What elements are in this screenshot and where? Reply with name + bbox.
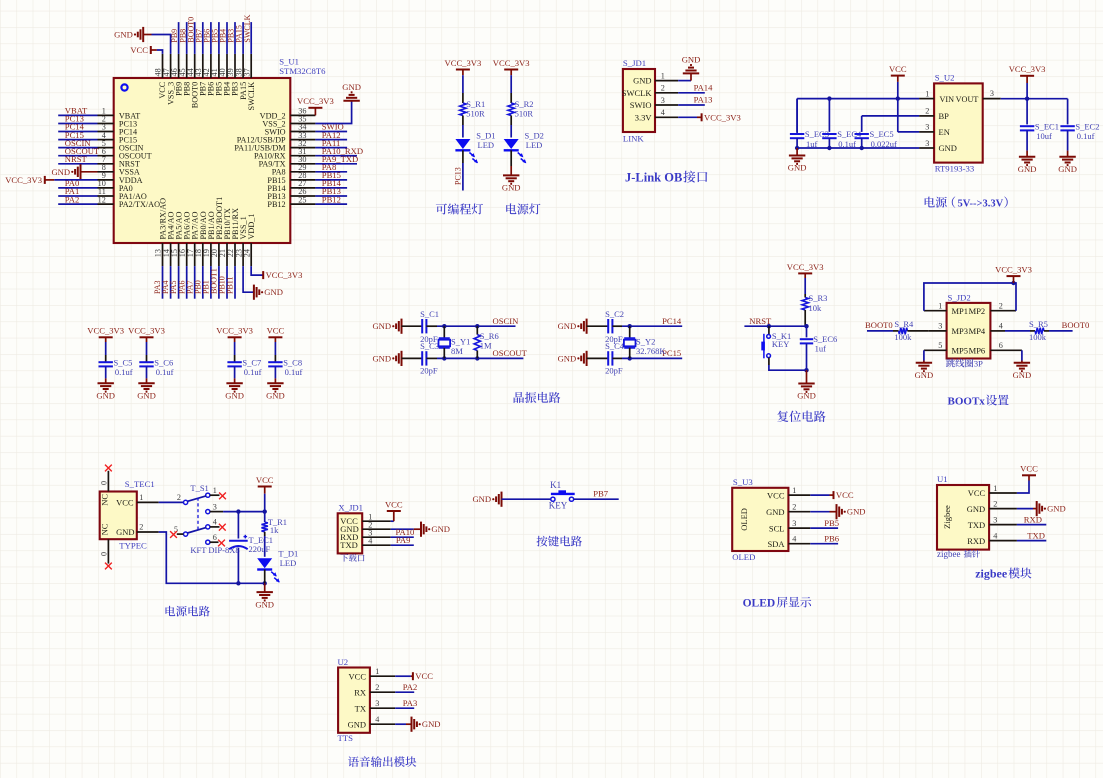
svg-text:TYPEC: TYPEC [119,541,147,551]
svg-text:6: 6 [213,533,217,542]
svg-text:MP2: MP2 [969,306,986,316]
wire left pin nets VBAT..PA2 [58,106,100,205]
svg-text:TXD: TXD [1027,530,1045,540]
svg-text:3: 3 [213,502,217,511]
svg-text:S_EC1: S_EC1 [1035,121,1059,131]
svg-text:VCC_3V3: VCC_3V3 [704,112,741,122]
svg-text:PA9: PA9 [396,535,411,545]
net label PC15 [662,348,681,358]
power flag VCC above S_U2 [889,64,907,99]
ground at zigbee pin 2 [1017,501,1066,516]
IC U1 S_U1 STM32C8T6 body [114,57,326,244]
wire S_U3 pin 3 net PB5 [810,518,839,528]
wire S_JD1 pin 3 net PA13 [678,95,712,105]
svg-text:S_R5: S_R5 [1029,319,1048,329]
svg-text:S_C7: S_C7 [242,357,261,367]
svg-text:OLED: OLED [732,552,755,562]
switch T_S1 mechanical link dashed [197,498,199,531]
resistor S_R1 510R [460,93,486,125]
svg-text:VCC_3V3: VCC_3V3 [493,58,530,68]
svg-text:PB12: PB12 [322,194,341,204]
svg-text:PB7: PB7 [593,489,609,499]
svg-text:4: 4 [792,535,796,544]
svg-text:5V-->3.3V: 5V-->3.3V [958,199,1004,210]
svg-text:GND: GND [96,390,115,400]
svg-text:MP4: MP4 [969,326,986,336]
ground flag left of S_C4 [558,351,587,366]
svg-text:3: 3 [938,322,942,331]
IC S_U1 bottom pins 13-24 stubs, numbers, names [154,197,257,266]
ground below S_C6 [137,378,156,400]
caption zigbee模块 [975,567,1031,581]
svg-text:2: 2 [375,683,379,692]
power flag VCC_3V3 at MCU pin 24 (VDD_1) [251,266,302,280]
svg-text:PB5: PB5 [824,518,839,528]
svg-text:RXD: RXD [967,536,985,546]
resistor S_R2 510R [508,93,534,125]
svg-text:TXD: TXD [968,520,985,530]
svg-text:T_D1: T_D1 [278,548,298,558]
svg-text:GND: GND [264,287,283,297]
svg-text:2: 2 [999,301,1003,310]
svg-text:STM32C8T6: STM32C8T6 [279,66,326,76]
no-connect pin 0 bottom of TYPEC [100,539,112,569]
svg-text:S_EC2: S_EC2 [1075,121,1099,131]
svg-text:SWCLK: SWCLK [622,88,653,98]
LED S_D1 [455,131,495,164]
svg-text:OLED: OLED [743,598,776,610]
svg-text:NRST: NRST [749,316,772,326]
svg-text:S_C5: S_C5 [114,357,133,367]
capacitor S_C5 0.1uf [99,355,133,378]
svg-text:S_R3: S_R3 [809,293,828,303]
svg-text:U1: U1 [937,474,948,484]
svg-text:VCC_3V3: VCC_3V3 [216,326,253,336]
svg-text:0: 0 [100,552,109,556]
caption 电源灯 [506,203,540,214]
crystal S_Y2 32.768K [624,326,666,358]
IC S_U1 left pins 1-12 stubs, numbers, names [98,107,161,209]
caption J-Link OB接口 [625,171,707,185]
svg-text:S_R2: S_R2 [515,99,534,109]
svg-text:S_U1: S_U1 [279,57,299,67]
power flag VCC_3V3 above S_C5 [87,326,124,355]
capacitor S_C7 0.1uf [227,355,261,378]
svg-text:MP3: MP3 [952,326,969,336]
power flag VCC_3V3 above S_C6 [128,326,165,355]
svg-text:VCC: VCC [130,45,148,55]
svg-text:BP: BP [939,111,950,121]
svg-text:X_JD1: X_JD1 [338,503,363,513]
svg-text:1M: 1M [480,341,492,351]
svg-text:GND: GND [967,504,985,514]
ground flag left of S_C1 [372,319,401,334]
IC U2 TTS voice module [338,657,396,743]
LED S_D2 [504,131,544,164]
wire BOOT loop pin1 to pin2 [924,281,1016,311]
wire right pin nets SWIO..PB12 [315,122,363,205]
svg-text:OSCIN: OSCIN [493,316,520,326]
svg-text:LINK: LINK [623,134,644,144]
svg-text:S_C2: S_C2 [605,309,624,319]
wire zigbee pin 3 net RXD [1017,514,1046,524]
IC U1 zigbee module [937,474,1017,549]
svg-text:GND: GND [558,353,577,363]
IC S_U2 RT9193-33 regulator [919,73,1001,174]
svg-text:BOOT0: BOOT0 [865,320,893,330]
svg-text:S_C4: S_C4 [605,341,625,351]
svg-text:GND: GND [1018,164,1037,174]
capacitor S_C8 0.1uf [268,355,302,378]
svg-text:TXD: TXD [340,540,357,550]
power flag VCC_3V3 at BOOT loop [995,265,1032,284]
svg-text:SWCLK: SWCLK [243,14,252,42]
caption 语音输出模块 [348,756,416,767]
svg-text:OSCOUT: OSCOUT [493,348,528,358]
svg-text:1: 1 [993,484,997,493]
svg-text:NRST: NRST [65,154,88,164]
wire S_R1 to S_D1 [462,125,464,138]
svg-text:S_C8: S_C8 [283,357,302,367]
wire crystal-2 top rail [622,324,682,328]
resistor T_R1 1k [262,512,288,536]
svg-text:VCC_3V3: VCC_3V3 [787,262,824,272]
svg-text:VCC_3V3: VCC_3V3 [995,265,1032,275]
ground flag at MCU pin 23 (VSS_1) [243,266,283,300]
svg-text:VOUT: VOUT [956,95,979,104]
svg-text:VCC: VCC [415,671,433,681]
switch T_S1 contact 4 with no-connect [206,518,226,531]
svg-text:GND: GND [633,76,651,86]
svg-text:LED: LED [280,558,297,568]
svg-text:KEY: KEY [549,501,568,511]
svg-text:GND: GND [114,30,133,40]
wire NRST node [744,316,808,329]
svg-text:3: 3 [925,123,929,132]
svg-text:GND: GND [939,143,957,153]
wire GND rail of S_U2 [795,146,919,150]
wire top pin nets PB9-SWCLK with rotated net labels [170,14,252,54]
svg-text:LED: LED [526,140,543,150]
svg-text:GND: GND [788,163,807,173]
svg-text:S_D1: S_D1 [476,131,495,141]
svg-text:GND: GND [342,82,361,92]
ground below S_C7 [225,378,244,400]
wire K1 to net PB7 [574,489,619,500]
svg-text:PA2: PA2 [403,682,418,692]
wire S_JD1 pin 2 net PA14 [678,82,713,92]
svg-text:3: 3 [375,699,379,708]
caption OLED屏显示 [743,597,812,610]
capacitor S_C2 20pF [587,309,624,344]
svg-text:GND: GND [847,507,866,517]
svg-text:PC13: PC13 [454,167,463,185]
svg-text:0: 0 [100,481,109,485]
svg-text:2: 2 [993,499,997,508]
label 下载口 [340,554,364,562]
power flag VCC_3V3 at S_JD1 pin 4 [678,112,741,122]
wire T_D1 to ground rail [264,570,266,584]
svg-text:0.1uf: 0.1uf [156,367,174,377]
svg-text:1: 1 [938,301,942,310]
svg-text:GND: GND [766,507,784,517]
no-connect pin 0 top of TYPEC [100,465,112,492]
wire crystal-1 bottom rail [437,356,523,360]
svg-text:MP6: MP6 [969,346,986,356]
power flag VCC at S_U3 pin 1 [810,490,854,500]
svg-text:0.1uf: 0.1uf [115,367,133,377]
ground below reset circuit [797,370,816,401]
svg-text:NC: NC [100,494,110,506]
svg-text:GND: GND [348,719,366,729]
wire S_R2 to S_D2 [510,125,512,138]
svg-text:1uf: 1uf [815,344,827,354]
svg-text:GND: GND [1047,504,1066,514]
svg-text:0.1uf: 0.1uf [1077,131,1095,141]
svg-text:PB6: PB6 [824,534,840,544]
svg-text:KEY: KEY [772,339,789,349]
svg-text:5: 5 [938,341,942,350]
power flag VCC above T_R1 [256,475,274,512]
svg-text:4: 4 [368,536,372,545]
svg-text:GND: GND [137,390,156,400]
svg-text:RXD: RXD [1024,514,1042,524]
svg-text:VCC_3V3: VCC_3V3 [266,270,303,280]
svg-text:S_EC6: S_EC6 [813,334,837,344]
svg-text:1: 1 [925,89,929,98]
svg-text:SDA: SDA [767,539,785,549]
svg-text:K1: K1 [550,480,561,490]
svg-text:510R: 510R [466,109,485,119]
svg-text:T_S1: T_S1 [190,483,208,493]
wire crystal-1 top rail [437,324,516,328]
wire VIN rail [797,96,919,100]
svg-text:BOOTx: BOOTx [948,396,986,408]
power flag VCC_3V3 above resistor S_R2 [493,58,530,93]
wire left rail [796,99,798,134]
ground below S_U2 left rail [788,148,807,173]
svg-text:GND: GND [1013,370,1032,380]
svg-text:VCC: VCC [349,671,367,681]
pushbutton K1 KEY [549,480,575,511]
ground below LED S_D2 [502,150,521,192]
ground below S_EC2 [1058,151,1077,174]
svg-text:100k: 100k [894,332,912,342]
pushbutton S_K1 KEY [761,326,791,365]
svg-text:6: 6 [999,341,1003,350]
wire X_JD1 pin 4 net PA9 [391,535,414,545]
svg-text:S_R1: S_R1 [466,99,485,109]
svg-text:VCC: VCC [767,490,785,500]
svg-text:1k: 1k [270,525,279,535]
ground below power circuit [255,583,274,609]
IC S_U1 top pins 48-37 with numbers and names [154,54,256,111]
svg-text:4: 4 [375,715,379,724]
svg-text:GND: GND [266,390,285,400]
svg-text:VCC_3V3: VCC_3V3 [445,58,482,68]
svg-text:VCC_3V3: VCC_3V3 [297,96,334,106]
caption 电源电路 [165,606,209,617]
svg-text:100k: 100k [1029,332,1047,342]
net label OSCIN [493,316,520,326]
wire S_D1 cathode to net PC13 [454,150,463,190]
svg-text:SWIO: SWIO [630,100,652,110]
svg-text:GND: GND [372,321,391,331]
svg-text:2: 2 [177,493,181,502]
svg-text:1: 1 [213,486,217,495]
svg-text:S_C1: S_C1 [420,309,439,319]
resistor S_R5 100k [1005,319,1089,342]
svg-text:510R: 510R [515,109,534,119]
wire BP to cap S_EC5 [862,116,919,127]
net label PC14 [662,316,682,326]
svg-text:2: 2 [792,503,796,512]
capacitor S_C6 0.1uf [139,355,173,378]
power flag VCC at TTS pin 1 [395,671,433,681]
svg-text:GND: GND [502,183,521,193]
svg-text:1: 1 [792,486,796,495]
svg-text:MP5: MP5 [952,346,969,356]
svg-text:1: 1 [139,493,143,502]
caption 按键电路 [537,536,582,547]
svg-text:VCC_3V3: VCC_3V3 [5,175,42,185]
svg-text:GND: GND [51,167,70,177]
svg-text:220uF: 220uF [249,544,271,554]
svg-text:GND: GND [422,719,441,729]
svg-text:4: 4 [999,322,1003,331]
switch T_S1 throw contact 1 with no-connect [188,486,226,501]
ground at TTS pin 4 [395,717,440,732]
power flag VCC_3V3 above S_C7 [216,326,253,355]
svg-text:VCC_3V3: VCC_3V3 [128,326,165,336]
svg-text:VCC: VCC [1020,464,1038,474]
svg-text:0.1uf: 0.1uf [244,367,262,377]
wire T_R1 to T_D1 [264,536,266,557]
svg-text:VCC: VCC [267,326,285,336]
svg-text:12: 12 [98,195,106,204]
svg-text:3: 3 [993,515,997,524]
wire crystal-2 bottom rail [622,356,682,360]
connector S_JD2 jumper block [924,293,1022,359]
svg-text:S_R4: S_R4 [894,319,914,329]
connector X_JD1 download port [338,503,391,554]
svg-text:3: 3 [990,89,994,98]
capacitor S_EC6 1uf [800,326,837,370]
svg-text:MP1: MP1 [952,306,969,316]
svg-text:VCC: VCC [385,499,403,509]
svg-text:VDD_1: VDD_1 [247,214,256,240]
capacitor S_C3 20pF [402,341,440,375]
svg-text:VCC: VCC [889,64,907,74]
caption 复位电路 [777,411,825,422]
ground flag left of S_C3 [372,351,401,366]
resistor S_R3 10k [802,293,827,326]
svg-text:PB12: PB12 [267,200,285,209]
capacitor S_EC4 0.1uf [822,99,862,149]
svg-text:3: 3 [661,96,665,105]
ground at S_JD1 pin 1 [678,55,700,81]
connector S_JD1 J-Link header [622,58,678,144]
capacitor S_EC2 0.1uf [1060,99,1099,151]
power flag VCC at MCU pin 48 [130,45,162,55]
wire EN to VIN [898,99,919,132]
power flag VCC_3V3 above S_R3 [787,262,824,294]
ground below S_EC1 [1018,151,1037,174]
svg-text:SCL: SCL [769,523,785,533]
svg-text:S_Y2: S_Y2 [636,337,655,347]
wire TYPEC pin2 to ground rail [159,532,267,586]
svg-text:VCC: VCC [256,475,274,485]
switch T_S1 contact 3 to VCC rail [206,502,267,513]
svg-text:S_Y1: S_Y1 [451,337,470,347]
svg-text:S_C3: S_C3 [420,341,439,351]
wire TYPEC pin1 to switch [159,501,184,503]
power flag VCC_3V3 at MCU pin 9 (VDDA) [5,175,97,185]
svg-text:EN: EN [939,127,950,137]
power flag VCC_3V3 at MCU pin 36 (VDD_2) [297,96,334,115]
ground at S_JD2 pin 5 [915,350,934,380]
resistor S_R6 1M [474,326,499,358]
svg-text:VIN: VIN [940,95,955,104]
svg-text:4: 4 [661,108,665,117]
capacitor S_EC3 1uf [790,99,829,149]
svg-text:S_EC5: S_EC5 [870,129,894,139]
svg-text:32.768K: 32.768K [636,346,666,356]
svg-text:S_JD2: S_JD2 [948,293,971,303]
svg-text:J-Link OB: J-Link OB [625,171,682,185]
crystal S_Y1 8M [439,326,471,358]
capacitor S_C4 20pF [587,341,625,375]
svg-text:10k: 10k [809,303,823,313]
IC S_U3 OLED display [732,477,810,562]
svg-text:GND: GND [915,370,934,380]
svg-text:S_R6: S_R6 [480,331,499,341]
caption 可编程灯 [436,203,483,214]
svg-text:3P: 3P [974,359,983,369]
power flag VCC at zigbee pin 1 [1017,464,1038,493]
capacitor S_EC5 0.022uf [855,127,897,149]
svg-text:TTS: TTS [338,733,354,743]
svg-text:SWCLK: SWCLK [247,82,256,111]
resistor S_R4 100k [865,319,928,342]
ground at S_U3 pin 2 [810,504,865,519]
svg-text:2: 2 [661,84,665,93]
wire TTS pin 3 net PA3 [395,698,417,708]
svg-text:10uf: 10uf [1036,131,1052,141]
wire TTS pin 2 net PA2 [395,682,417,692]
svg-text:U2: U2 [338,657,349,667]
svg-text:25: 25 [298,195,306,204]
svg-text:2: 2 [925,107,929,116]
svg-text:zigbee: zigbee [975,567,1008,581]
svg-text:OLED: OLED [739,508,749,531]
wire bottom pin nets PA3..PB11 with rotated labels [153,266,235,299]
svg-text:VCC_3V3: VCC_3V3 [87,326,124,336]
svg-text:RT9193-33: RT9193-33 [935,164,975,174]
switch T_S1 label [190,483,239,555]
svg-text:4: 4 [213,518,217,527]
svg-text:S_JD1: S_JD1 [623,58,646,68]
svg-text:S_TEC1: S_TEC1 [125,479,155,489]
svg-text:PA13: PA13 [694,95,713,105]
svg-text:GND: GND [797,391,816,401]
svg-text:20pF: 20pF [605,365,623,375]
svg-text:37: 37 [242,68,251,76]
svg-text:1: 1 [661,71,665,80]
svg-text:TX: TX [355,703,366,713]
svg-text:GND: GND [682,55,701,65]
net label OSCOUT [493,348,528,358]
